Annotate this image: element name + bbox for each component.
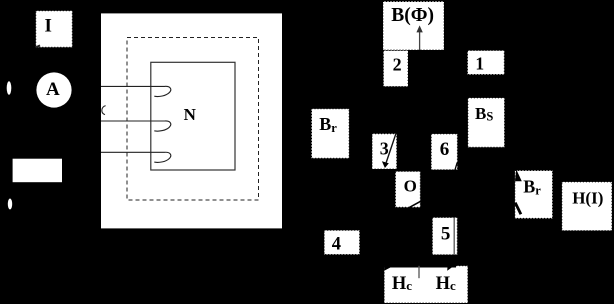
svg-text:N: N — [184, 105, 197, 124]
bottom branch line in Hc box — [384, 266, 456, 268]
curve arrow in node 3 — [382, 134, 396, 168]
node 3 — [372, 134, 397, 169]
node 4 — [324, 230, 359, 254]
core N — [151, 62, 235, 170]
label Bs — [468, 98, 505, 147]
battery box — [13, 159, 62, 183]
svg-text:3: 3 — [380, 138, 389, 158]
curve fragment at Br right bottom — [515, 203, 521, 215]
svg-text:I: I — [45, 16, 52, 37]
svg-text:4: 4 — [332, 234, 341, 254]
bottom branch arrowhead (left) — [384, 266, 393, 271]
svg-text:H(I): H(I) — [572, 189, 603, 208]
svg-text:2: 2 — [393, 55, 402, 75]
dashed boundary — [127, 38, 259, 201]
svg-text:В(Ф): В(Ф) — [391, 5, 434, 26]
node 2 — [383, 51, 408, 87]
label box B(F) axis — [383, 2, 444, 51]
label box I (current source) — [36, 11, 73, 48]
label Br (right) — [515, 171, 553, 219]
terminal ellipse (upper) — [7, 81, 12, 95]
label Br (left) — [312, 109, 350, 159]
svg-text:A: A — [46, 79, 60, 100]
svg-text:O: O — [404, 176, 417, 195]
curve fragment at origin — [409, 201, 421, 207]
bottom branch arrowhead (right) — [447, 264, 456, 271]
coil left hook — [102, 106, 106, 115]
svg-text:6: 6 — [440, 139, 450, 160]
coil loop 3 — [101, 152, 171, 162]
curve arrowhead (up) at Br right — [515, 169, 522, 181]
electromagnet outer plate — [101, 13, 282, 228]
wire fragment at box I corner — [36, 45, 40, 47]
curve segment at node 5 — [453, 218, 455, 255]
node 5 — [432, 218, 457, 255]
B axis segment in Hc box — [418, 266, 420, 278]
svg-text:1: 1 — [475, 54, 484, 74]
ammeter A — [36, 72, 71, 107]
coil loop 2 — [101, 121, 171, 131]
node 6 — [431, 134, 457, 170]
coil loop 1 — [101, 86, 171, 96]
terminal ellipse (lower) — [8, 199, 12, 210]
B axis arrow — [416, 25, 422, 50]
node 1 — [468, 51, 505, 75]
origin O — [395, 171, 420, 207]
svg-text:5: 5 — [441, 224, 451, 245]
label box Hc pair — [384, 266, 468, 303]
label box H(I) axis — [562, 182, 612, 231]
curve fragment at node 6 — [455, 163, 457, 171]
